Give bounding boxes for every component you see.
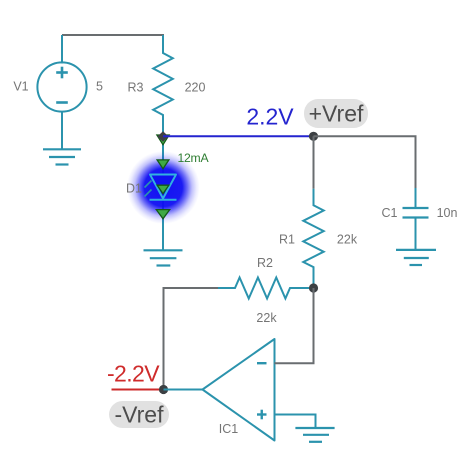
current arrow above LED [157,160,169,169]
net label -Vref [109,401,169,428]
LED D1 glow [127,151,200,224]
current arrow inside LED [157,185,169,193]
svg-text:2.2V: 2.2V [246,104,294,130]
wire +Vref net (blue): node A to node B [163,135,314,137]
svg-text:10n: 10n [437,206,458,220]
ground (C1) [396,250,436,265]
svg-text:+Vref: +Vref [309,101,364,127]
wire: node B down to R1 [313,136,315,189]
node C [309,283,318,292]
svg-text:D1: D1 [126,181,142,195]
current arrow under node A [157,135,169,145]
svg-text:22k: 22k [256,311,277,325]
svg-text:22k: 22k [337,232,358,246]
node B [309,132,318,141]
ground (LED) [144,250,183,265]
svg-text:12mA: 12mA [178,151,210,165]
svg-text:5: 5 [96,80,103,94]
wire: node D to op-amp output [164,389,203,391]
svg-text:R3: R3 [128,80,144,94]
ground (V1) [43,149,81,164]
wire -Vref net (red stub) [112,389,164,391]
svg-text:R1: R1 [279,232,295,246]
resistor R2 [218,278,309,299]
svg-text:-2.2V: -2.2V [107,361,160,387]
wire: V1 minus terminal to ground [61,112,63,149]
op-amp IC1 [203,339,275,441]
current arrow below LED [156,210,169,219]
ground (op-amp) [295,428,334,442]
LED D1 [145,175,177,200]
svg-text:220: 220 [185,80,206,94]
capacitor C1 [403,208,429,218]
svg-text:IC1: IC1 [219,422,239,436]
wire: C1 to ground [415,218,417,250]
wire: non-inverting input to ground [275,415,316,428]
resistor R3 [153,35,173,132]
wire top: V1 plus terminal to R3 top [62,35,164,64]
voltage source V1 [37,62,86,111]
net label +Vref [304,99,368,128]
svg-text:V1: V1 [13,80,28,94]
svg-text:C1: C1 [382,206,398,220]
wire: R2 left to op-amp output node D [164,288,219,390]
node A [157,131,168,142]
resistor R1 [303,189,323,288]
wire: feedback node C to inverting input [275,288,314,363]
svg-text:R2: R2 [257,256,273,270]
wire: node B to C1 [314,136,416,207]
svg-text:-Vref: -Vref [115,402,165,428]
node D [159,385,168,394]
wire: node A through LED to ground [162,136,164,250]
